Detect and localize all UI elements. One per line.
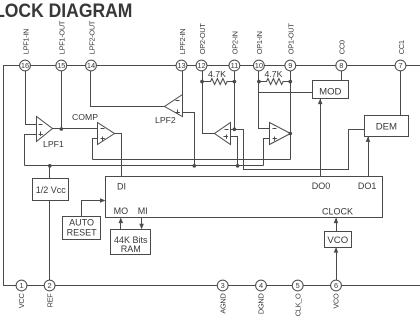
wire COMP non-inverting input to RailA	[93, 139, 98, 160]
svg-text:8: 8	[339, 61, 343, 70]
wire pin7 to DEM top	[400, 71, 402, 116]
svg-text:3: 3	[221, 281, 225, 290]
wire pin14 to LPF2 output	[91, 71, 165, 107]
op-amp OP1	[270, 123, 291, 145]
svg-text:LPF1-OUT: LPF1-OUT	[58, 20, 67, 54]
wire LPF1 output to COMP inverting input	[53, 128, 98, 130]
block 1/2 Vcc	[33, 179, 69, 201]
pin 3	[217, 280, 228, 291]
wire OP2 inverting node to DEM input	[231, 130, 365, 170]
svg-text:1: 1	[19, 281, 23, 290]
block controller with DI MO MI DO0 DO1 CLOCK	[106, 177, 383, 218]
svg-text:VCO: VCO	[332, 293, 341, 309]
svg-text:LPF2: LPF2	[155, 115, 176, 125]
resistor R1 4.7K between pin12 and pin11	[203, 79, 235, 85]
svg-text:7: 7	[398, 61, 402, 70]
svg-text:AUTO: AUTO	[69, 218, 94, 228]
svg-text:VCO: VCO	[327, 235, 348, 246]
pin 8	[336, 60, 347, 71]
svg-text:9: 9	[288, 61, 292, 70]
svg-text:13: 13	[177, 61, 185, 70]
svg-text:12: 12	[197, 61, 205, 70]
svg-text:6: 6	[334, 281, 338, 290]
junction dot R1 left	[200, 80, 204, 84]
pin 9	[285, 60, 296, 71]
junction dot RailB OP2 plus	[236, 164, 240, 168]
wire LPF1 non-inverting input to reference rail	[25, 135, 37, 166]
svg-text:DO1: DO1	[358, 181, 377, 191]
pin 2	[44, 280, 55, 291]
wire AUTO RESET to controller left edge	[82, 201, 105, 217]
svg-text:11: 11	[231, 61, 239, 70]
pin 12	[196, 60, 207, 71]
wire reference rail RailB	[25, 165, 264, 167]
block VCO	[325, 232, 352, 248]
OP1 plus sign	[273, 137, 277, 141]
arrowhead MI into RAM top	[139, 224, 144, 230]
arrowhead pin6 into VCO bottom	[334, 247, 339, 253]
svg-text:4: 4	[259, 281, 263, 290]
svg-text:OP1-IN: OP1-IN	[255, 31, 264, 54]
junction dot OP1 output	[289, 132, 293, 136]
svg-text:14: 14	[87, 61, 95, 70]
OP2 minus sign	[225, 129, 229, 131]
svg-text:LPF1-IN: LPF1-IN	[21, 29, 30, 54]
resistor R2 4.7K between pin10 and pin9	[259, 79, 291, 85]
wire controller DO1 to DEM bottom	[368, 137, 370, 177]
svg-text:RAM: RAM	[121, 244, 141, 254]
wire pin8 to MOD top	[341, 71, 343, 81]
block DEM	[365, 116, 409, 137]
OP2 plus sign	[224, 135, 228, 139]
svg-text:RESET: RESET	[67, 228, 98, 238]
wire OP1 inverting node to MOD input	[259, 92, 313, 94]
wire VCO box to controller CLOCK input	[336, 219, 338, 232]
svg-text:AGND: AGND	[218, 294, 227, 314]
wire pin10 to OP1 inverting input	[259, 71, 270, 129]
svg-text:BLOCK DIAGRAM: BLOCK DIAGRAM	[0, 0, 132, 22]
wire RailB to half-Vcc box	[49, 166, 51, 179]
COMP plus sign	[101, 137, 105, 141]
svg-text:LPF1: LPF1	[43, 139, 64, 149]
wire controller MI line to RAM top	[141, 218, 143, 229]
svg-text:LPF2-IN: LPF2-IN	[178, 29, 187, 54]
pin 16	[20, 60, 31, 71]
svg-text:OP1-OUT: OP1-OUT	[287, 23, 296, 55]
arrowhead VCO into controller bottom	[334, 218, 339, 224]
svg-text:MO: MO	[114, 206, 129, 216]
svg-text:15: 15	[57, 61, 65, 70]
junction dot R2 right	[289, 80, 293, 84]
pin 14	[86, 60, 97, 71]
wire COMP output to controller DI input	[115, 134, 122, 177]
svg-text:4.7K: 4.7K	[208, 69, 226, 79]
svg-text:5: 5	[296, 281, 300, 290]
arrowhead into controller from AUTO RESET	[100, 198, 106, 203]
wire OP1 non-inverting input to RailB end	[264, 139, 270, 166]
arrowhead DO1 into DEM bottom	[366, 136, 371, 142]
svg-text:LPF2-OUT: LPF2-OUT	[87, 20, 96, 54]
wire pin11 to OP2 inverting input	[234, 71, 236, 130]
op-amp OP2	[215, 123, 231, 145]
block AUTO RESET	[63, 217, 101, 240]
wire OP2 non-inverting input to RailB	[231, 137, 238, 166]
LPF1 minus sign	[39, 124, 43, 126]
svg-text:VCC: VCC	[17, 293, 26, 309]
svg-text:REF: REF	[45, 293, 54, 308]
wire pin6 to VCO box bottom	[336, 249, 338, 281]
LPF2 minus sign	[176, 100, 180, 102]
op-amp LPF2	[165, 95, 183, 117]
arrowhead DO0 into MOD bottom	[318, 99, 323, 105]
svg-text:DI: DI	[117, 181, 126, 191]
svg-text:DGND: DGND	[257, 294, 266, 315]
pin 4	[256, 280, 267, 291]
wire half-Vcc box to pin2 REF	[49, 201, 51, 281]
pin 5	[292, 280, 303, 291]
pin 7	[395, 60, 406, 71]
svg-text:10: 10	[255, 61, 263, 70]
wire pin16 to LPF1 inverting input	[26, 71, 37, 125]
COMP minus sign	[101, 128, 105, 130]
wire pin15 to LPF1 output	[61, 71, 63, 129]
op-amp LPF1	[37, 117, 53, 142]
wire pin9 to OP1 output and RailA	[290, 71, 292, 160]
svg-text:MOD: MOD	[319, 87, 341, 98]
junction dot at LPF1 output pin15	[60, 127, 64, 131]
arrowhead MO into controller bottom	[119, 218, 124, 224]
junction dot R1 right	[233, 80, 237, 84]
svg-text:2: 2	[48, 281, 52, 290]
pin 13	[176, 60, 187, 71]
LPF1 plus sign	[39, 132, 43, 136]
svg-text:DEM: DEM	[376, 122, 397, 133]
pin 11	[229, 60, 240, 71]
junction dot RailB half-Vcc	[48, 164, 52, 168]
svg-text:16: 16	[21, 61, 29, 70]
svg-text:1/2 Vcc: 1/2 Vcc	[36, 185, 67, 195]
svg-text:CC0: CC0	[338, 40, 347, 54]
block MOD	[313, 81, 349, 99]
IC package outline U1	[4, 66, 420, 286]
wire controller DO0 to MOD bottom	[320, 99, 322, 177]
svg-text:MI: MI	[138, 206, 148, 216]
block 44K Bits RAM	[111, 230, 151, 255]
svg-text:CC1: CC1	[397, 40, 406, 54]
svg-text:CLK_O: CLK_O	[293, 293, 302, 316]
svg-text:OP2-IN: OP2-IN	[231, 31, 240, 54]
wire RailA	[93, 159, 291, 161]
svg-text:DO0: DO0	[312, 181, 331, 191]
wire RAM MO line to controller bottom	[120, 219, 122, 230]
pin 1	[16, 280, 27, 291]
svg-text:COMP: COMP	[72, 112, 98, 122]
pin 10	[254, 60, 265, 71]
pin 6	[331, 280, 342, 291]
OP1 minus sign	[273, 128, 277, 130]
junction dot OP2 inverting input	[233, 128, 237, 132]
wire pin13 to LPF2 inverting input	[182, 71, 184, 102]
wire LPF2 non-inverting input to RailB	[183, 113, 195, 166]
op-amp COMP	[98, 123, 115, 145]
svg-text:OP2-OUT: OP2-OUT	[198, 23, 207, 55]
wire pin12 to OP2 output	[203, 71, 215, 134]
junction dot RailB LPF2 plus	[193, 164, 197, 168]
svg-text:4.7K: 4.7K	[265, 69, 283, 79]
junction dot R2 left	[257, 80, 261, 84]
LPF2 plus sign	[176, 110, 180, 114]
pin 15	[56, 60, 67, 71]
svg-text:CLOCK: CLOCK	[322, 206, 353, 216]
